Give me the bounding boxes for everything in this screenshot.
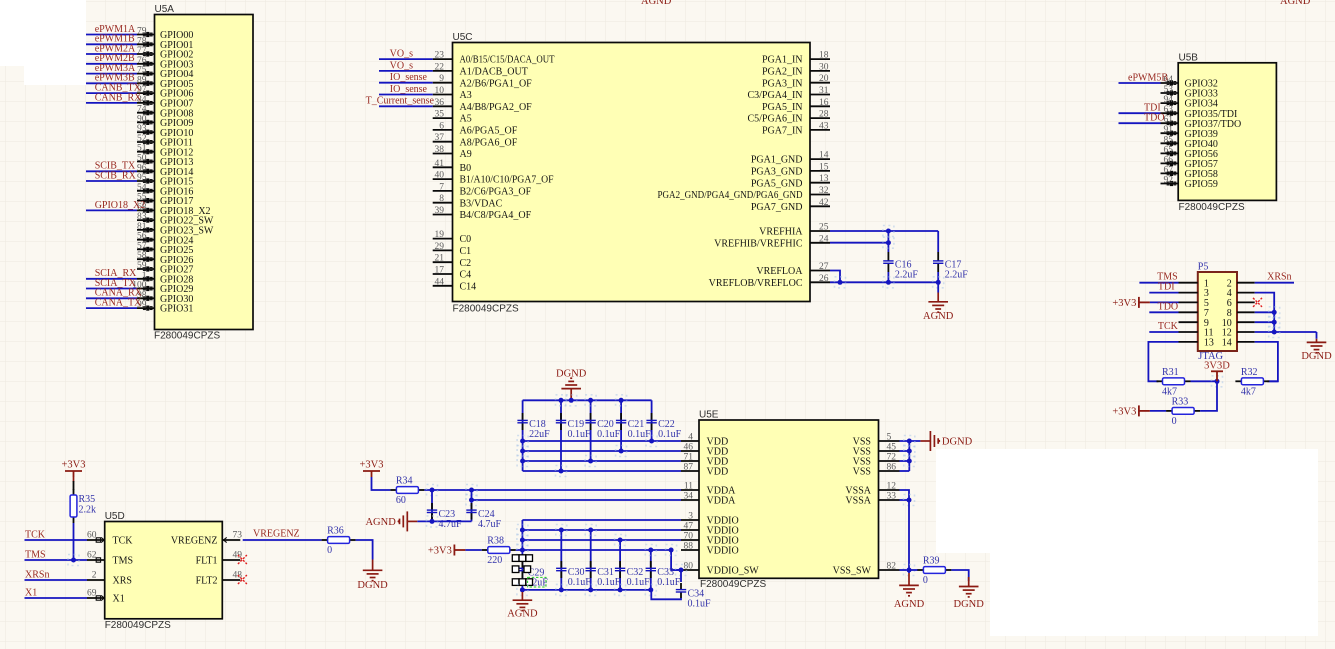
U5E pin 46 VDD (681, 450, 699, 452)
wire net CANA_RX (86, 297, 137, 299)
svg-text:+3V3: +3V3 (428, 546, 452, 557)
svg-text:ePWM5B: ePWM5B (1128, 72, 1168, 83)
svg-text:63: 63 (1164, 105, 1174, 115)
U5A pin 57 GPIO25 (137, 248, 155, 250)
capacitor C16 2.2uF (887, 252, 889, 261)
svg-text:F280049CPZS: F280049CPZS (453, 304, 519, 315)
resistor R34 60 (390, 489, 396, 491)
U5B pin 64 GPIO32 (1161, 82, 1179, 84)
U5B pin 65 GPIO56 (1161, 152, 1179, 154)
svg-text:76: 76 (137, 56, 147, 66)
svg-text:85: 85 (1164, 135, 1174, 145)
U5A pin 54 GPIO16 (137, 190, 155, 192)
junction rail pin71 (517, 456, 528, 467)
+3V3 power port above R35 (65, 471, 82, 477)
wire pin13 loop down to R31 (1148, 342, 1178, 381)
svg-text:U5E: U5E (699, 410, 719, 421)
svg-text:48: 48 (233, 571, 243, 581)
junction rail pin47 (517, 525, 528, 536)
svg-text:U5A: U5A (155, 4, 175, 15)
svg-text:GPIO18_X2: GPIO18_X2 (95, 200, 146, 211)
wire to AGND below C17 (937, 282, 939, 292)
capacitor C31 0.1uF (590, 561, 592, 568)
svg-text:VDDIO: VDDIO (707, 546, 739, 557)
svg-text:DGND: DGND (942, 437, 973, 448)
U5C pin 42 PGA7_GND (810, 205, 830, 207)
U5D pin 49 FLT1 (222, 559, 240, 561)
C29 selection handles (512, 555, 519, 562)
svg-text:18: 18 (819, 51, 829, 61)
junction bus C19 (556, 395, 567, 406)
svg-text:GPIO31: GPIO31 (160, 304, 193, 315)
svg-text:95: 95 (137, 173, 147, 183)
svg-text:66: 66 (1164, 155, 1174, 165)
svg-text:88: 88 (684, 542, 694, 552)
svg-text:67: 67 (1164, 165, 1174, 175)
svg-text:34: 34 (684, 492, 694, 502)
wire AGND to C23 C24 bottoms (417, 520, 471, 522)
svg-text:VO_s: VO_s (390, 49, 413, 60)
junction C23 top (427, 485, 438, 496)
U5C pin 38 A9 (433, 153, 453, 155)
U5B pin 91 GPIO39 (1161, 132, 1179, 134)
P5 pin 6 (1237, 301, 1255, 303)
svg-text:IO_sense: IO_sense (390, 84, 428, 95)
svg-text:PGA2_IN: PGA2_IN (762, 67, 803, 78)
svg-text:39: 39 (435, 206, 445, 216)
wire +3V3 to R33 (1150, 410, 1166, 412)
U5A pin 51 GPIO12 (137, 151, 155, 153)
svg-text:22: 22 (435, 62, 445, 72)
U5A pin 75 GPIO04 (137, 73, 155, 75)
svg-text:75: 75 (137, 66, 147, 76)
U5A pin 96 GPIO14 (137, 170, 155, 172)
U5A pin 90 GPIO09 (137, 121, 155, 123)
junction C24 top (466, 485, 477, 496)
svg-text:6: 6 (439, 121, 444, 131)
wire pin4 to DGND rail (1255, 293, 1275, 332)
svg-text:3V3D: 3V3D (1204, 360, 1230, 371)
svg-text:2: 2 (92, 571, 97, 581)
svg-text:C2: C2 (460, 258, 472, 269)
svg-text:TCK: TCK (25, 529, 46, 540)
U5C pin 13 PGA5_GND (810, 182, 830, 184)
wire net SCIA_RX (86, 278, 137, 280)
U5D pin 62 TMS (87, 559, 105, 561)
junction C17 bottom (933, 277, 944, 288)
capacitor C32 0.1uF (619, 561, 621, 568)
U5B pin 85 GPIO40 (1161, 142, 1179, 144)
svg-text:92: 92 (1164, 176, 1174, 186)
svg-text:73: 73 (233, 531, 243, 541)
junction VSS pin45 (904, 446, 915, 457)
U5E pin 86 VSS (879, 470, 900, 472)
wire net VSS pin72 (900, 460, 910, 462)
resistor R39 0 (917, 569, 923, 571)
U5C pin 8 B3/VDAC (433, 202, 453, 204)
U5A pin 76 GPIO03 (137, 63, 155, 65)
junction rail pin8 (1269, 307, 1280, 318)
junction rail pin10 (1269, 317, 1280, 328)
U5E pin 47 VDDIO (681, 529, 699, 531)
U5C pin 25 VREFHIA (810, 230, 830, 232)
ground DGND below R36 (363, 560, 383, 581)
svg-text:C0: C0 (460, 234, 472, 245)
wire net VSSA pin33 (900, 499, 910, 501)
wire net T_Current_sense (379, 105, 433, 107)
svg-text:19: 19 (435, 230, 445, 240)
capacitor C22 0.1uF (651, 413, 653, 420)
svg-text:57: 57 (137, 241, 147, 251)
U5C pin 35 A5 (433, 117, 453, 119)
svg-text:36: 36 (435, 98, 445, 108)
wire net ePWM3A (86, 73, 137, 75)
svg-text:A8/PGA6_OF: A8/PGA6_OF (460, 137, 518, 148)
U5E pin 3 VDDIO (681, 519, 699, 521)
svg-text:X1: X1 (113, 594, 125, 605)
svg-text:90: 90 (137, 114, 147, 124)
capacitor C18 22uF (522, 413, 524, 420)
svg-text:PGA3_GND: PGA3_GND (751, 167, 803, 178)
junction C34 top at pin80 wire (676, 565, 687, 576)
connector P5 body (1198, 272, 1237, 351)
power port 3V3D (1211, 371, 1223, 381)
svg-text:T_Current_sense: T_Current_sense (366, 96, 435, 107)
U5C pin 31 C3/PGA4_IN (810, 94, 830, 96)
wire net VDDIO pin88 (516, 549, 671, 551)
junction C30 top (556, 525, 567, 536)
ground AGND below VSSA rail (899, 573, 919, 596)
svg-text:R32: R32 (1241, 367, 1258, 378)
wire C30 column (560, 530, 562, 590)
U5C pin 24 VREFHIB/VREFHIC (810, 242, 830, 244)
U5A pin 95 GPIO15 (137, 180, 155, 182)
U5A pin 58 GPIO26 (137, 258, 155, 260)
wire C16 column upper (887, 231, 889, 252)
wire net X1 (25, 597, 88, 599)
U5A pin 1 GPIO28 (137, 278, 155, 280)
U5C pin 37 A8/PGA6_OF (433, 141, 453, 143)
U5B pin 94 GPIO34 (1161, 102, 1179, 104)
U5C pin 26 VREFLOB/VREFLOC (810, 281, 830, 283)
wire net CANB_TX (86, 92, 137, 94)
wire net ePWM1A (86, 34, 137, 36)
wire C32 column (619, 540, 621, 590)
svg-text:78: 78 (137, 36, 147, 46)
svg-text:16: 16 (819, 98, 829, 108)
U5D pin 69 X1 (87, 597, 105, 599)
svg-text:R34: R34 (396, 476, 413, 487)
U5C pin 32 PGA2_GND/PGA4_GND/PGA6_GND (810, 194, 830, 196)
wire C23 column (431, 490, 433, 521)
svg-text:26: 26 (819, 274, 829, 284)
junction pin24 at C16 column (883, 237, 894, 248)
wire net ePWM2B (86, 63, 137, 65)
svg-text:12: 12 (887, 482, 897, 492)
junction rail pin12 (1269, 327, 1280, 338)
wire R36 to DGND corner (356, 540, 373, 560)
svg-text:37: 37 (435, 133, 445, 143)
ground DGND above bus (inverted) (561, 378, 581, 400)
svg-text:R33: R33 (1172, 396, 1189, 407)
U5C pin 17 C4 (433, 273, 453, 275)
svg-text:TDO: TDO (1144, 113, 1165, 124)
junction AGND bus C30 (556, 584, 567, 595)
svg-text:23: 23 (435, 51, 445, 61)
svg-text:21: 21 (435, 254, 445, 264)
svg-text:VDD: VDD (707, 467, 729, 478)
svg-text:+3V3: +3V3 (359, 460, 383, 471)
svg-text:33: 33 (887, 492, 897, 502)
svg-text:82: 82 (887, 562, 897, 572)
no-connect X on pin6 (1253, 298, 1262, 307)
svg-text:B1/A10/C10/PGA7_OF: B1/A10/C10/PGA7_OF (460, 175, 554, 186)
U5A pin 68 GPIO18_X2 (137, 209, 155, 211)
svg-text:42: 42 (819, 198, 829, 208)
capacitor C29 22uF (selected) (521, 561, 523, 568)
wire C33 column (650, 550, 652, 590)
svg-text:0.1uF: 0.1uF (568, 429, 592, 440)
wire VDDIO left rail / C29 column (521, 520, 523, 590)
U5C pin 19 C0 (433, 238, 453, 240)
svg-text:TDI: TDI (1158, 282, 1175, 293)
U5D pin 2 XRS (87, 579, 105, 581)
svg-text:0: 0 (923, 575, 928, 586)
wire net XRSn (25, 579, 88, 581)
svg-text:B3/VDAC: B3/VDAC (460, 198, 503, 209)
capacitor C24 4.7uF (471, 503, 473, 510)
U5E pin 4 VDD (681, 440, 699, 442)
svg-text:XRS: XRS (113, 576, 132, 587)
wire net TDI (1149, 292, 1178, 294)
svg-text:0.1uF: 0.1uF (597, 577, 621, 588)
svg-text:F280049CPZS: F280049CPZS (154, 331, 220, 342)
wire net TDO (1149, 311, 1178, 313)
U5C pin 30 PGA2_IN (810, 70, 830, 72)
svg-text:7: 7 (439, 182, 444, 192)
U5E pin 11 VDDA (681, 489, 699, 491)
U5E pin 71 VDD (681, 460, 699, 462)
P5 pin 1 (1179, 282, 1198, 284)
svg-text:F280049CPZS: F280049CPZS (700, 579, 766, 590)
svg-text:46: 46 (684, 443, 694, 453)
P5 pin 5 (1179, 301, 1198, 303)
wire DGND drop (1316, 332, 1318, 339)
junction VSS pin72 (904, 456, 915, 467)
P5 pin 10 (1237, 321, 1255, 323)
U5A pin 59 GPIO27 (137, 268, 155, 270)
wire net TCK (1149, 331, 1178, 333)
wire net ePWM2A (86, 53, 137, 55)
U5C pin 22 A1/DACB_OUT (433, 70, 453, 72)
U5E pin 45 VSS (879, 450, 900, 452)
U5A pin 99 GPIO31 (137, 307, 155, 309)
svg-text:VREGENZ: VREGENZ (253, 529, 300, 540)
svg-text:15: 15 (819, 162, 829, 172)
svg-text:PGA2_GND/PGA4_GND/PGA6_GND: PGA2_GND/PGA4_GND/PGA6_GND (658, 190, 803, 201)
wire net VREFLOA pin27 elbow (830, 271, 840, 283)
C29 green selection box (528, 577, 546, 587)
wire R31 to 3V3D node (1191, 380, 1218, 382)
svg-text:PGA7_GND: PGA7_GND (751, 202, 803, 213)
U5A pin 83 GPIO22_SW (137, 219, 155, 221)
U5C pin 20 PGA3_IN (810, 82, 830, 84)
svg-text:71: 71 (684, 453, 694, 463)
svg-text:74: 74 (137, 105, 147, 115)
wire R33 to 3V3D node (1200, 381, 1217, 411)
junction R35 TMS (68, 555, 79, 566)
wire R39 to DGND corner (951, 570, 968, 581)
svg-text:VSS: VSS (853, 467, 871, 478)
junction VSSA pin33 (904, 495, 915, 506)
svg-text:1: 1 (142, 271, 147, 281)
wire net TCK (25, 539, 88, 541)
svg-text:C5/PGA6_IN: C5/PGA6_IN (747, 114, 802, 125)
svg-text:27: 27 (819, 262, 829, 272)
svg-text:22uF: 22uF (529, 429, 550, 440)
IC U5B F280049CPZS body (1178, 63, 1276, 201)
wire net TDO (1119, 122, 1161, 124)
U5B pin 67 GPIO58 (1161, 172, 1179, 174)
no-connect X on FLT1 (238, 555, 247, 564)
svg-text:GPIO59: GPIO59 (1185, 179, 1218, 190)
wire C20 column (590, 400, 592, 461)
svg-text:60: 60 (396, 495, 406, 506)
svg-text:0: 0 (327, 545, 332, 556)
svg-text:A4/B8/PGA2_OF: A4/B8/PGA2_OF (460, 102, 533, 113)
U5E pin 80 VDDIO_SW (681, 569, 699, 571)
svg-text:91: 91 (1164, 125, 1174, 135)
U5C pin 16 PGA5_IN (810, 105, 830, 107)
wire net VDD pin46 (523, 450, 681, 452)
wire C19 column (560, 400, 562, 471)
svg-text:43: 43 (819, 121, 829, 131)
junction AGND bus C29 (517, 584, 528, 595)
junction VSS pin5 (904, 436, 915, 447)
svg-text:94: 94 (1164, 95, 1174, 105)
U5C pin 36 A4/B8/PGA2_OF (433, 105, 453, 107)
wire net SCIA_TX (86, 288, 137, 290)
P5 pin 8 (1237, 311, 1255, 313)
svg-text:60: 60 (87, 531, 97, 541)
P5 pin 3 (1179, 292, 1198, 294)
U5A pin 79 GPIO00 (137, 34, 155, 36)
wire +3V3 to R38 (465, 549, 481, 551)
U5E pin 12 VSSA (879, 489, 900, 491)
junction C31 top (585, 525, 596, 536)
U5B pin 61 GPIO37/TDO (1161, 122, 1179, 124)
U5C pin 21 C2 (433, 261, 453, 263)
svg-text:F280049CPZS: F280049CPZS (1179, 202, 1245, 213)
wire C31 column (590, 530, 592, 590)
svg-text:C4: C4 (460, 270, 472, 281)
svg-text:IO_sense: IO_sense (390, 72, 428, 83)
wire R32 right (1269, 380, 1278, 382)
svg-text:32: 32 (819, 186, 829, 196)
svg-text:49: 49 (233, 551, 243, 561)
svg-text:0.1uF: 0.1uF (597, 429, 621, 440)
resistor R38 220 (482, 549, 488, 551)
junction C22 pin4 (646, 436, 657, 447)
svg-text:AGND: AGND (641, 0, 672, 7)
svg-text:51: 51 (137, 144, 147, 154)
svg-text:B0: B0 (460, 163, 472, 174)
svg-text:54: 54 (137, 183, 147, 193)
svg-text:VREFLOA: VREFLOA (756, 266, 803, 277)
U5C pin 40 B1/A10/C10/PGA7_OF (433, 178, 453, 180)
svg-text:VSS_SW: VSS_SW (833, 566, 872, 577)
svg-text:PGA5_IN: PGA5_IN (762, 102, 803, 113)
wire R35 to TMS junction (73, 523, 75, 560)
svg-text:A0/B15/C15/DACA_OUT: A0/B15/C15/DACA_OUT (460, 55, 555, 66)
svg-text:72: 72 (887, 453, 897, 463)
svg-text:VREFLOB/VREFLOC: VREFLOB/VREFLOC (709, 278, 803, 289)
wire pin10 to rail (1255, 321, 1275, 323)
svg-text:96: 96 (137, 163, 147, 173)
svg-text:17: 17 (435, 266, 445, 276)
ground AGND below C17 (928, 293, 948, 313)
resistor R32 4k7 (1235, 380, 1241, 382)
junction C16 bottom (883, 277, 894, 288)
resistor R36 0 (322, 539, 328, 541)
svg-text:69: 69 (87, 589, 97, 599)
svg-text:29: 29 (435, 242, 445, 252)
junction C33 top (645, 545, 656, 556)
U5A pin 55 GPIO17 (137, 200, 155, 202)
svg-text:A3: A3 (460, 90, 472, 101)
wire net CANB_RX (86, 102, 137, 104)
svg-text:25: 25 (819, 223, 829, 233)
svg-text:4k7: 4k7 (1241, 386, 1256, 397)
IC U5C F280049CPZS body (453, 43, 811, 302)
junction AGND bus C33 loop (645, 584, 656, 595)
junction C21 pin46 (616, 446, 627, 457)
wire net VDDIO pin3 (522, 519, 681, 521)
svg-text:2.2k: 2.2k (79, 505, 97, 516)
wire elbow pin88 to pin80 (671, 550, 681, 570)
U5C pin 15 PGA3_GND (810, 170, 830, 172)
U5A pin 98 GPIO30 (137, 297, 155, 299)
P5 pin 13 (1179, 341, 1198, 343)
P5 pin 7 (1179, 311, 1198, 313)
U5C pin 27 VREFLOA (810, 270, 830, 272)
U5A pin 77 GPIO02 (137, 53, 155, 55)
svg-text:SCIB_RX: SCIB_RX (95, 170, 137, 181)
svg-text:50: 50 (137, 154, 147, 164)
svg-text:14: 14 (1222, 338, 1232, 349)
wire C16 column lower (887, 272, 889, 282)
wire +3V3 to pin5 (1150, 301, 1179, 303)
junction pin27 join (835, 277, 846, 288)
svg-text:A6/PGA5_OF: A6/PGA5_OF (460, 126, 518, 137)
svg-text:61: 61 (1164, 115, 1174, 125)
svg-text:TMS: TMS (113, 556, 134, 567)
U5A pin 52 GPIO11 (137, 141, 155, 143)
junction rail pin70 (517, 535, 528, 546)
ground AGND port left of C23 (400, 511, 418, 531)
wire net ePWM1B (86, 43, 137, 45)
svg-text:2.2uF: 2.2uF (895, 270, 919, 281)
U5D pin 60 TCK (87, 539, 105, 541)
capacitor C21 0.1uF (620, 413, 622, 420)
svg-text:79: 79 (137, 27, 147, 37)
capacitor C23 4.7uF (431, 503, 433, 510)
svg-text:PGA7_IN: PGA7_IN (762, 126, 803, 137)
svg-text:59: 59 (137, 261, 147, 271)
U5B pin 92 GPIO59 (1161, 183, 1179, 185)
U5E pin 87 VDD (681, 470, 699, 472)
svg-text:VO_s: VO_s (390, 60, 413, 71)
